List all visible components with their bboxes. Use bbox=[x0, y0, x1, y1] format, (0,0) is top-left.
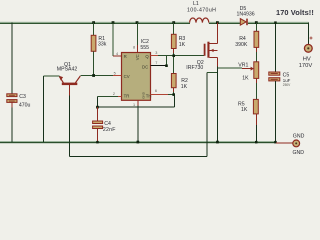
resistor R2 bbox=[171, 74, 176, 95]
label R2 value bbox=[181, 78, 188, 90]
terminal HV plus mark bbox=[310, 37, 313, 40]
label HV 170V bbox=[299, 56, 313, 69]
svg-text:1K: 1K bbox=[181, 84, 188, 90]
svg-text:33k: 33k bbox=[98, 42, 107, 48]
label R4 value bbox=[235, 36, 248, 48]
svg-text:4: 4 bbox=[116, 52, 118, 56]
svg-text:390K: 390K bbox=[235, 42, 248, 48]
label Q2 type bbox=[186, 60, 204, 71]
transistor Q1 bbox=[59, 76, 80, 96]
label R1 value bbox=[98, 36, 107, 48]
junction C4 at ground rail bbox=[96, 141, 99, 144]
wire VCC top rail left segment bbox=[0, 22, 190, 24]
potentiometer VR1 bbox=[246, 62, 259, 100]
junction C5 top at rail bbox=[274, 21, 277, 24]
capacitor C5 bbox=[269, 23, 280, 143]
wire pin4 reset bbox=[113, 23, 122, 57]
wire top rail inductor to diode bbox=[209, 22, 241, 24]
wire Q2 source to ground bbox=[216, 66, 218, 142]
label R3 value bbox=[179, 36, 186, 48]
svg-text:170V: 170V bbox=[299, 63, 313, 69]
junction on rail at pin8 wire bbox=[136, 21, 139, 24]
IC U1 555 timer body bbox=[122, 53, 151, 101]
terminal HV bbox=[304, 44, 312, 52]
svg-text:7: 7 bbox=[155, 61, 157, 65]
wire 555 discharge pin7 bbox=[151, 56, 167, 66]
junction R1 bottom on CV wire bbox=[92, 74, 95, 77]
wire 555 threshold pin6 bbox=[151, 94, 174, 96]
junction C5 at ground rail bbox=[274, 141, 277, 144]
label C5 value bbox=[283, 72, 292, 87]
svg-text:2: 2 bbox=[113, 92, 115, 96]
wire HV terminal drop bbox=[307, 23, 309, 45]
diode D5 bbox=[240, 19, 248, 26]
capacitor C4 bbox=[93, 107, 103, 142]
op-amp U1 bbox=[0, 0, 1, 1]
junction C4 top node bbox=[96, 106, 99, 109]
wire 555 output pin3 to gate bbox=[151, 55, 204, 57]
svg-text:555: 555 bbox=[140, 45, 149, 51]
wire left supply vertical lower bbox=[11, 103, 13, 108]
junction on rail at R3 bbox=[172, 21, 175, 24]
svg-text:1K: 1K bbox=[242, 76, 249, 82]
svg-text:MPSA42: MPSA42 bbox=[57, 67, 78, 73]
wire output node diode to HV corner bbox=[248, 22, 309, 24]
resistor R4 bbox=[254, 23, 259, 62]
wire 555 trigger pin2 bbox=[97, 96, 121, 107]
svg-text:3: 3 bbox=[155, 51, 157, 55]
wire GND terminal stub bbox=[276, 142, 293, 144]
svg-text:1: 1 bbox=[133, 103, 135, 107]
wire lower feedback line bbox=[70, 156, 207, 158]
svg-text:170 Volts!!: 170 Volts!! bbox=[276, 8, 314, 17]
wire Q1 emitter to ground bbox=[44, 76, 60, 142]
junction on rail at pin4 wire bbox=[112, 21, 115, 24]
junction R5 at ground rail bbox=[255, 141, 258, 144]
svg-text:C3: C3 bbox=[19, 94, 26, 100]
svg-text:DC: DC bbox=[142, 64, 148, 69]
junction at L1/drain node bbox=[216, 21, 219, 24]
wire Q2 source node to VR1 wiper bbox=[217, 67, 242, 69]
svg-text:100-470uH: 100-470uH bbox=[187, 7, 216, 13]
svg-text:250V: 250V bbox=[283, 83, 291, 87]
resistor R1 bbox=[91, 23, 96, 75]
svg-text:VR1: VR1 bbox=[238, 62, 248, 68]
label C3 value bbox=[19, 94, 31, 108]
wire feedback TH node down and across to C4 node bbox=[97, 95, 174, 108]
wire 555 GND pin1 bbox=[137, 100, 139, 142]
label R5 value bbox=[238, 101, 248, 113]
junction Q2 source at ground rail bbox=[216, 141, 219, 144]
junction R3/R2 node on pin3 wire bbox=[172, 54, 175, 57]
svg-text:TR: TR bbox=[124, 94, 130, 99]
svg-text:8: 8 bbox=[133, 45, 135, 49]
svg-text:L1: L1 bbox=[193, 1, 199, 7]
wire feedback riser to Q2 source node bbox=[207, 72, 217, 156]
svg-text:VC: VC bbox=[135, 54, 140, 60]
junction at output/R4 node bbox=[255, 21, 258, 24]
resistor R5 bbox=[253, 99, 258, 142]
wire left supply vertical upper bbox=[11, 23, 13, 94]
wire 555 CV pin5 to Q1 collector bbox=[80, 74, 121, 76]
svg-text:CV: CV bbox=[124, 74, 130, 79]
svg-text:HV: HV bbox=[303, 56, 311, 62]
svg-text:5: 5 bbox=[114, 72, 116, 76]
resistor R3 bbox=[171, 23, 176, 74]
svg-text:1K: 1K bbox=[241, 107, 248, 113]
svg-text:R: R bbox=[124, 54, 127, 59]
svg-text:6: 6 bbox=[155, 89, 157, 93]
label L1 value bbox=[187, 1, 216, 13]
label D5 value bbox=[237, 6, 255, 18]
transistor Q2 MOSFET bbox=[204, 23, 218, 67]
svg-text:1N4936: 1N4936 bbox=[237, 11, 255, 17]
label VR1 value bbox=[238, 62, 249, 81]
svg-text:GND: GND bbox=[293, 134, 305, 140]
junction R2 bottom / TH bbox=[172, 93, 175, 96]
capacitor C3 bbox=[7, 94, 17, 103]
junction on rail at R1 bbox=[92, 21, 95, 24]
wire ground rail bbox=[0, 141, 276, 143]
svg-text:GND: GND bbox=[293, 150, 305, 156]
svg-text:22nF: 22nF bbox=[103, 127, 116, 133]
svg-text:IRF730: IRF730 bbox=[186, 65, 203, 71]
junction pin1 at ground rail bbox=[137, 141, 140, 144]
svg-text:470u: 470u bbox=[19, 102, 31, 108]
svg-text:1K: 1K bbox=[179, 42, 186, 48]
wire Q1 base down to lower feedback line bbox=[69, 96, 71, 157]
label C4 value bbox=[103, 121, 116, 133]
junction pin7 link bbox=[165, 64, 168, 67]
wire pin8 VCC bbox=[136, 23, 138, 53]
label Q1 type bbox=[57, 62, 78, 73]
label IC2 555 bbox=[140, 39, 149, 51]
terminal GND bbox=[293, 140, 300, 147]
inductor L1 bbox=[190, 18, 209, 23]
